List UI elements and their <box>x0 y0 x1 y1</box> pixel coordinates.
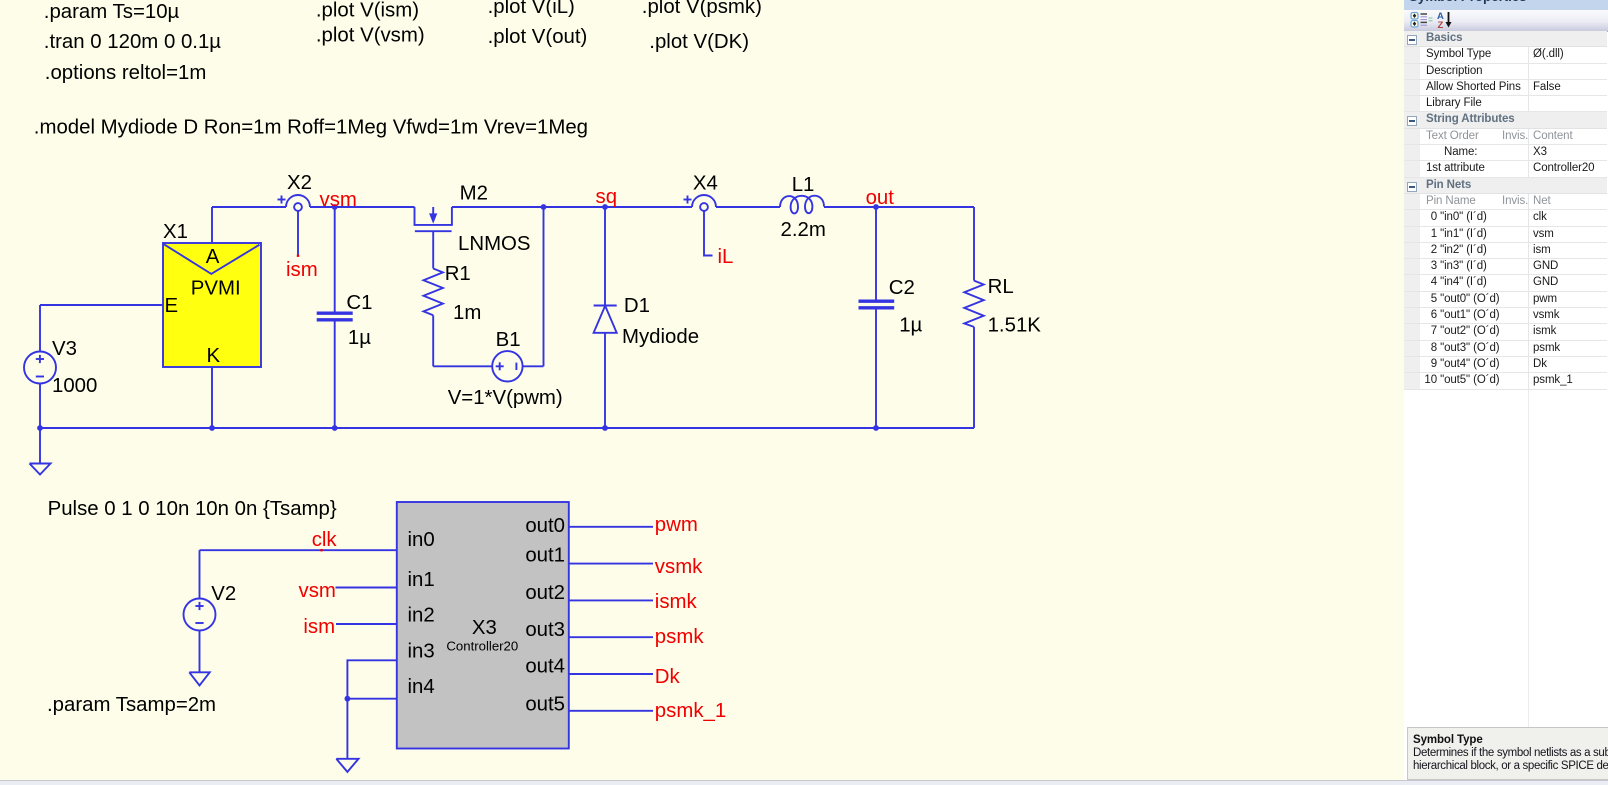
M2 control arrow <box>432 207 434 214</box>
wire V2 to clk net <box>199 550 201 598</box>
diode D1 triangle <box>594 306 617 333</box>
net tick ism <box>297 255 299 257</box>
transistor M2 switch body <box>415 207 452 225</box>
svg-text:.param Ts=10µ: .param Ts=10µ <box>44 1 180 23</box>
svg-text:A: A <box>206 246 220 268</box>
X1 chevron notch <box>164 244 260 274</box>
wire pin out3 to psmk <box>569 636 653 638</box>
svg-text:ism: ism <box>286 259 318 281</box>
capacitor C2 plates <box>859 300 895 303</box>
svg-text:LNMOS: LNMOS <box>458 233 531 255</box>
wire pin out1 to vsmk <box>569 563 653 565</box>
wire main rail sq to probe X4 <box>605 206 692 208</box>
svg-text:.plot V(iL): .plot V(iL) <box>488 0 575 18</box>
ground at V3 <box>39 428 41 464</box>
voltage source V3 circle <box>24 352 56 384</box>
inductor L1 coil <box>780 196 824 214</box>
svg-text:.options reltol=1m: .options reltol=1m <box>45 62 207 84</box>
svg-text:out: out <box>866 187 895 209</box>
wire X1 top pin A to main rail <box>211 207 213 243</box>
svg-text:PVMI: PVMI <box>191 278 241 300</box>
svg-text:psmk: psmk <box>655 626 705 648</box>
ground below X3 <box>336 759 358 772</box>
svg-text:L1: L1 <box>792 174 815 196</box>
svg-text:R1: R1 <box>445 263 471 285</box>
svg-text:2.2m: 2.2m <box>781 219 826 241</box>
wire pin in3 to ground <box>347 660 396 698</box>
M2 channel bar <box>415 230 452 232</box>
wire main rail M2 to node sq <box>452 206 605 208</box>
svg-text:out4: out4 <box>525 656 565 678</box>
X4 plus sign <box>684 199 692 201</box>
junction dot D1 on ground rail <box>602 425 608 431</box>
diode D1 cathode bar <box>594 305 617 307</box>
svg-text:.plot V(psmk): .plot V(psmk) <box>642 0 762 18</box>
svg-text:V3: V3 <box>52 338 77 360</box>
wire capacitor C1 bottom lead <box>334 322 336 429</box>
behavioural source B1 circle <box>492 351 522 381</box>
wire inductor L1 to node out <box>824 206 974 208</box>
svg-text:in1: in1 <box>408 569 435 591</box>
wire main rail X1 to probe X2 <box>212 206 286 208</box>
svg-text:RL: RL <box>988 276 1014 298</box>
svg-text:vsm: vsm <box>320 189 357 211</box>
svg-text:E: E <box>165 295 179 317</box>
resistor R1 zigzag <box>424 269 443 316</box>
svg-text:1.51K: 1.51K <box>988 315 1042 337</box>
svg-text:B1: B1 <box>496 329 521 351</box>
capacitor C1 plates <box>317 312 353 315</box>
junction dot at B1 drain connection <box>541 204 547 210</box>
svg-text:out1: out1 <box>525 544 565 566</box>
svg-text:out0: out0 <box>525 515 565 537</box>
wire diode D1 bottom lead <box>604 333 606 428</box>
wire main rail X4 to inductor L1 <box>716 206 780 208</box>
svg-text:in2: in2 <box>408 605 435 627</box>
wire diode D1 top lead <box>604 207 606 306</box>
wire pin out2 to ismk <box>569 599 653 601</box>
V2 plus sign <box>195 605 203 607</box>
pulse source V2 circle <box>184 599 216 631</box>
svg-text:.tran 0 120m 0 0.1µ: .tran 0 120m 0 0.1µ <box>44 31 221 53</box>
svg-text:C1: C1 <box>346 292 372 314</box>
wire M2 to resistor R1 <box>432 231 434 268</box>
svg-text:out5: out5 <box>525 694 565 716</box>
B1 plus sign <box>496 365 504 367</box>
subcircuit X1 PVMI body <box>163 243 261 367</box>
svg-text:.param Tsamp=2m: .param Tsamp=2m <box>47 694 216 716</box>
wire resistor RL top lead <box>973 207 975 281</box>
svg-text:iL: iL <box>718 246 734 268</box>
wire V3 to X1 pin E <box>40 304 163 306</box>
svg-text:V2: V2 <box>211 583 236 605</box>
svg-text:.plot V(out): .plot V(out) <box>488 26 588 48</box>
svg-text:.model Mydiode D Ron=1m Roff=1: .model Mydiode D Ron=1m Roff=1Meg Vfwd=1… <box>34 117 588 139</box>
X2 sense lead to ism <box>297 211 299 256</box>
panel title bar (clipped) <box>1404 0 1608 10</box>
svg-text:Dk: Dk <box>655 666 681 688</box>
junction dot V3 on ground rail <box>37 425 43 431</box>
wire capacitor C1 top lead <box>334 207 336 312</box>
wire ism stub to pin in2 <box>336 623 397 625</box>
net tick clk <box>320 549 322 551</box>
svg-text:1µ: 1µ <box>899 315 922 337</box>
wire vsm stub to pin in1 <box>336 587 397 589</box>
X4 sense lead to iL <box>704 211 713 256</box>
svg-text:pwm: pwm <box>655 514 698 536</box>
wire R1 to B1 <box>432 315 434 366</box>
panel toolbar <box>1404 10 1608 32</box>
svg-text:X2: X2 <box>287 172 312 194</box>
wire V3 bottom lead <box>39 384 41 429</box>
ground at V2 <box>199 631 201 673</box>
svg-text:clk: clk <box>312 529 338 551</box>
wire pin in4 <box>347 698 396 700</box>
wire V3 top lead <box>39 305 41 352</box>
svg-text:D1: D1 <box>624 295 650 317</box>
svg-text:X3: X3 <box>472 617 497 639</box>
wire capacitor C2 bottom lead <box>875 310 877 429</box>
wire main rail X2 to M2 <box>310 206 415 208</box>
svg-text:X4: X4 <box>693 173 718 195</box>
controller block X3 body <box>397 502 569 749</box>
svg-text:Z: Z <box>1438 20 1444 31</box>
svg-text:in4: in4 <box>408 676 435 698</box>
svg-text:1m: 1m <box>453 302 481 324</box>
X2 terminal circle <box>294 203 302 211</box>
wire B1 to drain node <box>523 365 544 367</box>
svg-text:X1: X1 <box>163 221 188 243</box>
node sq junction dot <box>602 204 608 210</box>
wire X1 bottom pin K to ground rail <box>211 367 213 428</box>
wire down to ground below X3 <box>346 699 348 759</box>
resistor RL zigzag <box>964 281 983 327</box>
wire resistor RL bottom lead <box>973 327 975 428</box>
current probe X2 arc <box>286 195 310 207</box>
wire capacitor C2 top lead <box>875 207 877 300</box>
junction dot C1 on ground rail <box>332 425 338 431</box>
X4 terminal circle <box>700 203 708 211</box>
svg-text:sq: sq <box>596 186 618 208</box>
wire pin out5 to psmk_1 <box>569 710 653 712</box>
svg-text:1000: 1000 <box>52 375 97 397</box>
svg-text:out2: out2 <box>525 582 565 604</box>
svg-text:Controller20: Controller20 <box>446 639 518 654</box>
junction dot in3-in4 net <box>345 696 351 702</box>
current probe X4 arc <box>692 195 716 207</box>
svg-text:K: K <box>207 345 221 367</box>
V3 plus sign <box>36 358 44 360</box>
node vsm junction dot <box>332 204 338 210</box>
svg-text:Mydiode: Mydiode <box>622 326 699 348</box>
B1 minus bar <box>515 363 517 370</box>
svg-text:ism: ism <box>303 616 335 638</box>
svg-text:1µ: 1µ <box>348 327 371 349</box>
bottom ground rail wire <box>40 427 974 429</box>
svg-text:V=1*V(pwm): V=1*V(pwm) <box>448 387 563 409</box>
wire pin out0 to pwm <box>569 526 653 528</box>
svg-text:psmk_1: psmk_1 <box>655 700 726 722</box>
svg-text:out3: out3 <box>525 619 565 641</box>
svg-text:vsmk: vsmk <box>655 556 703 578</box>
junction dot X1 pin K on ground rail <box>209 425 215 431</box>
V3 minus sign <box>36 376 44 378</box>
svg-text:.plot V(vsm): .plot V(vsm) <box>316 25 425 47</box>
svg-text:Pulse 0 1 0 10n 10n 0n {Tsamp}: Pulse 0 1 0 10n 10n 0n {Tsamp} <box>48 498 337 520</box>
svg-text:C2: C2 <box>889 277 915 299</box>
V2 minus sign <box>195 622 203 624</box>
wire pin out4 to Dk <box>569 673 653 675</box>
node out junction dot <box>873 204 879 210</box>
svg-text:ismk: ismk <box>655 591 698 613</box>
junction dot C2 on ground rail <box>873 425 879 431</box>
svg-text:vsm: vsm <box>299 580 336 602</box>
svg-text:M2: M2 <box>460 183 488 205</box>
svg-text:in3: in3 <box>408 640 435 662</box>
svg-text:in0: in0 <box>408 529 435 551</box>
X2 plus sign <box>278 199 286 201</box>
svg-text:.plot V(DK): .plot V(DK) <box>649 31 749 53</box>
svg-text:.plot V(ism): .plot V(ism) <box>316 0 419 22</box>
